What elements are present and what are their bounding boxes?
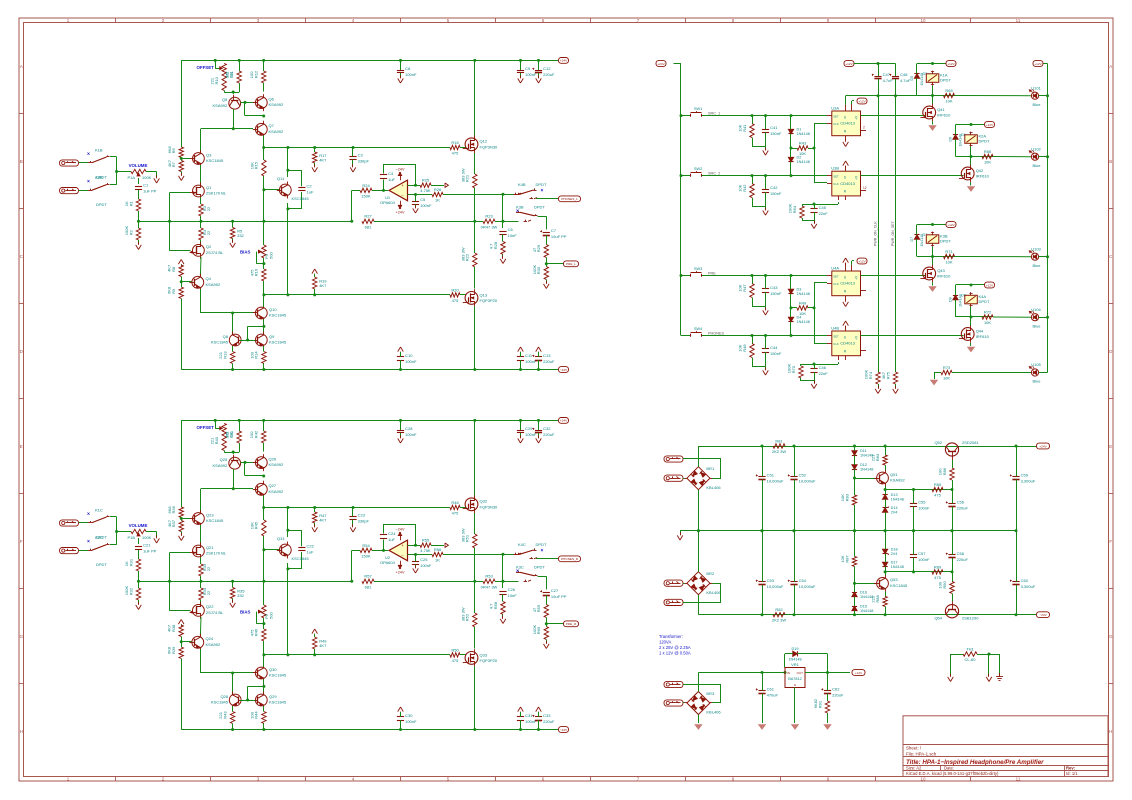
svg-text:1N4148: 1N4148 — [860, 609, 873, 613]
wire p2 wiper feed (ch 1) — [215, 60, 219, 68]
resistor R2 (ch 1) — [124, 226, 141, 240]
relay K3B — [926, 232, 951, 247]
svg-text:2SB1290: 2SB1290 — [962, 616, 979, 621]
svg-text:10uF PP: 10uF PP — [551, 594, 567, 599]
svg-text:Q28: Q28 — [220, 694, 228, 699]
wire -24V bottom rail (ch 2) — [181, 729, 558, 731]
junction (ch 2) — [519, 728, 522, 731]
svg-text:KSC1845: KSC1845 — [292, 196, 310, 201]
wire pot to gnd (ch 1) — [146, 172, 157, 178]
svg-text:R65: R65 — [945, 88, 953, 93]
junction — [912, 570, 915, 573]
wire q drain — [932, 257, 934, 266]
resistor R74 — [864, 370, 881, 388]
resistor R7 (ch 1) — [167, 158, 184, 176]
svg-text:10nF: 10nF — [508, 233, 518, 238]
capacitor C46 — [810, 364, 828, 381]
ground tri — [929, 126, 935, 130]
switch K3C (ch 2) — [516, 565, 546, 576]
ground tri — [968, 187, 974, 191]
svg-text:475: 475 — [934, 493, 941, 498]
svg-text:Q31: Q31 — [277, 536, 285, 541]
svg-text:K4C: K4C — [518, 542, 526, 547]
hier label PHONES_R (ch 2) — [559, 556, 581, 562]
svg-text:R42: R42 — [254, 430, 259, 438]
wire bridge dc- — [698, 490, 700, 531]
svg-text:+12V: +12V — [1034, 62, 1042, 66]
svg-text:R85: R85 — [934, 482, 942, 487]
svg-text:Q52: Q52 — [934, 440, 942, 445]
svg-text:C32: C32 — [543, 426, 551, 431]
svg-text:383 3W: 383 3W — [460, 168, 465, 182]
junction — [853, 445, 856, 448]
junction — [790, 274, 793, 277]
svg-text:Q8: Q8 — [223, 334, 229, 339]
svg-text:Q5: Q5 — [222, 97, 228, 102]
junction (ch 1) — [246, 339, 249, 342]
svg-text:10nF: 10nF — [508, 593, 518, 598]
svg-text:C23: C23 — [358, 512, 366, 517]
wire q10-q9 (ch 1) — [263, 319, 265, 334]
transistor Q13 (ch 1) — [463, 289, 498, 307]
diode D19 — [785, 647, 828, 661]
svg-text:E: E — [20, 444, 23, 449]
transistor Q5 (ch 1) — [213, 95, 241, 109]
power port +12V — [946, 61, 956, 67]
junction (ch 2) — [180, 640, 183, 643]
ic U4B — [827, 325, 865, 355]
svg-text:Q7: Q7 — [269, 123, 275, 128]
svg-text:220uF: 220uF — [957, 505, 969, 510]
wire q10-q9 (ch 2) — [263, 679, 265, 694]
junction (ch 1) — [382, 189, 385, 192]
power +24V flag (ch 2) — [396, 561, 405, 575]
svg-text:332: 332 — [237, 593, 244, 598]
svg-text:SW3: SW3 — [694, 267, 702, 271]
svg-text:R54: R54 — [362, 543, 370, 548]
label OFFSET (ch 1) — [197, 65, 215, 70]
svg-text:0R47 3W: 0R47 3W — [481, 584, 498, 589]
svg-text:+12V: +12V — [986, 123, 994, 127]
potentiometer P2 (ch 1) — [222, 63, 234, 77]
potentiometer P1A (ch 1) — [127, 169, 151, 180]
transistor Q29 (ch 2) — [253, 692, 287, 709]
wire q12 source (ch 2) — [474, 513, 476, 534]
wire vr1 gnd — [794, 688, 796, 724]
power port +24V — [1037, 443, 1050, 449]
power port +12V — [857, 258, 867, 264]
wire q4-q10 base (ch 2) — [200, 649, 255, 673]
wire q13 drain (ch 1) — [474, 307, 476, 370]
junction (ch 2) — [473, 728, 476, 731]
svg-text:CLK: CLK — [833, 282, 839, 286]
junction (ch 1) — [502, 193, 505, 196]
svg-text:VOLUME: VOLUME — [129, 523, 148, 528]
svg-text:File: HPA-1.sch: File: HPA-1.sch — [906, 751, 937, 756]
svg-text:4K7: 4K7 — [881, 371, 886, 379]
transistor Q32 (ch 2) — [463, 496, 498, 514]
wire rc join — [752, 207, 766, 210]
svg-text:C51: C51 — [767, 472, 775, 477]
wire opamp inv (ch 1) — [408, 194, 433, 196]
svg-text:100K: 100K — [864, 370, 869, 380]
label OFFSET (ch 2) — [197, 425, 215, 430]
junction (ch 2) — [519, 419, 522, 422]
wire q7-gate node (ch 1) — [263, 136, 265, 148]
wire rail top elbow — [1043, 63, 1048, 65]
power port -24V (ch 2) — [559, 727, 569, 733]
svg-text:Q32: Q32 — [480, 499, 488, 504]
wire opamp out (ch 2) — [408, 545, 421, 547]
ground — [763, 148, 769, 156]
junction (ch 2) — [473, 580, 476, 583]
junction input node (ch 1) — [115, 170, 118, 173]
svg-text:Blue: Blue — [1032, 323, 1041, 328]
svg-text:BIAS: BIAS — [240, 249, 251, 254]
resistor R66 — [982, 149, 993, 165]
svg-text:D4: D4 — [797, 316, 802, 320]
label VOLUME (ch 1) — [129, 163, 148, 168]
wiper arrow (ch 2) — [259, 610, 262, 613]
svg-text:D15: D15 — [860, 604, 867, 608]
wire gate riser up (ch 1) — [170, 193, 191, 222]
wiper arrow (ch 1) — [259, 250, 262, 253]
wire led to rail — [1039, 95, 1048, 97]
svg-text:R43: R43 — [799, 140, 807, 145]
svg-text:FQP3N30: FQP3N30 — [480, 144, 499, 149]
wire to led — [993, 316, 1031, 318]
wire bridge dc+ — [698, 446, 700, 467]
svg-text:C58: C58 — [957, 551, 965, 556]
junction — [761, 671, 764, 674]
svg-text:R66: R66 — [984, 149, 992, 154]
transistor Q7 (ch 1) — [253, 121, 284, 138]
svg-text:IRF610: IRF610 — [976, 174, 990, 179]
junction (ch 1) — [502, 220, 505, 223]
junction (ch 1) — [399, 368, 402, 371]
transistor Q42 — [959, 165, 990, 183]
wire ac2 — [683, 583, 684, 585]
wire r20-q13 (ch 2) — [460, 654, 466, 656]
svg-text:220uF: 220uF — [543, 72, 555, 77]
svg-text:Blue: Blue — [1032, 263, 1041, 268]
svg-text:U4A: U4A — [831, 265, 839, 270]
wire out stub right (ch 2) — [503, 581, 519, 583]
svg-text:2SK170 BL: 2SK170 BL — [206, 551, 227, 556]
svg-text:221: 221 — [210, 77, 215, 84]
transistor Q22 (ch 2) — [190, 602, 224, 619]
resistor R4 (ch 1) — [199, 228, 211, 240]
svg-text:12: 12 — [863, 186, 867, 190]
junction — [790, 147, 793, 150]
svg-text:10K: 10K — [738, 184, 743, 191]
junction — [790, 306, 793, 309]
transistor Q51 — [874, 470, 905, 487]
resistor R84 — [871, 446, 888, 470]
wire bridge dc- — [698, 531, 700, 572]
thermistor TH1 — [951, 646, 1000, 662]
junction — [931, 255, 934, 258]
junction — [790, 114, 793, 117]
transformer note — [659, 634, 691, 656]
svg-text:−24V: −24V — [396, 528, 405, 532]
wire r12 to rail (ch 1) — [263, 60, 265, 71]
ground flag up (ch 2) — [398, 707, 404, 715]
resistor R53 (ch 2) — [475, 574, 504, 590]
wire feedback line (ch 1) — [139, 221, 475, 223]
junction (ch 2) — [262, 475, 265, 478]
wire wiper hook (ch 2) — [256, 612, 264, 624]
junction — [970, 284, 973, 287]
svg-text:D11: D11 — [860, 449, 867, 453]
wire led to rail — [1039, 317, 1048, 319]
ic U3A — [827, 105, 865, 135]
junction — [931, 94, 934, 97]
junction (ch 1) — [399, 59, 402, 62]
svg-text:10K: 10K — [984, 320, 991, 325]
junction (ch 1) — [350, 220, 353, 223]
svg-text:BR1: BR1 — [706, 466, 715, 471]
diode D8 — [948, 285, 966, 317]
svg-text:R10: R10 — [214, 76, 219, 84]
svg-text:B: B — [1109, 159, 1112, 164]
svg-text:100: 100 — [249, 431, 254, 438]
wire q source — [932, 282, 934, 285]
junction (ch 2) — [262, 419, 265, 422]
wire q8-q9 link (ch 1) — [240, 340, 255, 342]
svg-text:R42: R42 — [742, 184, 747, 192]
svg-text:−: − — [401, 192, 404, 197]
svg-text:220uF: 220uF — [543, 432, 555, 437]
svg-text:KSC1845: KSC1845 — [292, 556, 310, 561]
junction — [853, 477, 856, 480]
wire q drain — [970, 317, 972, 326]
svg-text:IRF610: IRF610 — [937, 113, 951, 118]
svg-text:−24V: −24V — [396, 168, 405, 172]
wire to pre pill (ch 2) — [546, 623, 563, 625]
svg-text:10: 10 — [920, 18, 926, 23]
junction (ch 1) — [313, 293, 316, 296]
junction (ch 2) — [313, 653, 316, 656]
wire r1-r2 (ch 2) — [138, 571, 140, 588]
junction — [751, 274, 754, 277]
svg-text:4K7: 4K7 — [319, 283, 327, 288]
wire q11 base (ch 2) — [264, 549, 279, 551]
svg-text:DPDT: DPDT — [536, 182, 547, 187]
junction — [1015, 613, 1018, 616]
junction — [884, 488, 887, 491]
wire q emitter — [885, 572, 887, 575]
wire r16 down (ch 2) — [263, 641, 265, 655]
junction (ch 1) — [232, 127, 235, 130]
junction — [877, 62, 880, 65]
junction — [853, 529, 856, 532]
junction — [912, 529, 915, 532]
resistor R60 (ch 2) — [532, 624, 549, 643]
wire pwr_on_set rail — [895, 96, 897, 372]
svg-text:475: 475 — [452, 658, 459, 663]
resistor R31 (ch 2) — [124, 558, 141, 571]
wire psu rail — [698, 614, 1036, 616]
svg-text:1N4148: 1N4148 — [797, 132, 810, 136]
capacitor C24 (ch 2) — [380, 531, 396, 542]
wire q source — [932, 121, 934, 124]
ground (ch 1) — [413, 205, 419, 213]
power port +12V — [985, 282, 995, 288]
junction (ch 1) — [168, 220, 171, 223]
led U103 — [1029, 246, 1041, 268]
wire left supply drop (ch 2) — [181, 420, 183, 507]
svg-text:OFFSET: OFFSET — [197, 425, 215, 430]
svg-text:100nF: 100nF — [405, 359, 417, 364]
junction (ch 2) — [262, 685, 265, 688]
svg-text:R45: R45 — [254, 521, 259, 529]
svg-text:100nF: 100nF — [405, 719, 417, 724]
bridge BR1 — [684, 464, 721, 492]
svg-text:681: 681 — [365, 224, 372, 229]
bridge BR3 — [684, 689, 721, 717]
wire r12-q6 (ch 1) — [263, 83, 265, 92]
junction (ch 1) — [231, 312, 234, 315]
svg-text:C13: C13 — [543, 353, 551, 358]
svg-text:10K: 10K — [738, 284, 743, 291]
wire q source — [970, 182, 972, 185]
svg-text:C57: C57 — [918, 551, 926, 556]
led U102 — [1029, 146, 1041, 168]
connector 12VAC_1 — [664, 681, 683, 687]
wire u4a q out — [861, 275, 926, 277]
svg-text:U102: U102 — [1031, 146, 1041, 151]
junction (ch 1) — [262, 293, 265, 296]
svg-text:6K8: 6K8 — [167, 506, 172, 514]
wire u4b q out — [861, 335, 964, 337]
junction — [764, 334, 767, 337]
svg-text:U4B: U4B — [831, 325, 839, 330]
ground tri — [824, 725, 830, 729]
svg-text:R58: R58 — [493, 601, 498, 609]
junction (ch 2) — [246, 699, 249, 702]
junction (ch 2) — [286, 529, 289, 532]
wire q5-q6 link (ch 2) — [241, 462, 254, 464]
wire sw out — [706, 175, 828, 177]
svg-text:475: 475 — [452, 511, 459, 516]
hier label PHONES_L (ch 1) — [559, 196, 581, 202]
junction — [988, 653, 991, 656]
wire q12 drain (ch 1) — [474, 60, 476, 138]
ground — [763, 307, 769, 315]
svg-text:100K: 100K — [142, 535, 152, 540]
wire q emitter — [885, 486, 887, 489]
power +24V flag (ch 1) — [396, 201, 405, 215]
svg-text:G: G — [1109, 634, 1113, 639]
resistor R91 — [813, 698, 830, 723]
capacitor C2 (ch 1) — [298, 184, 314, 195]
svg-text:2V4: 2V4 — [891, 510, 898, 514]
svg-text:×: × — [87, 179, 90, 185]
svg-text:C29: C29 — [525, 426, 533, 431]
bridge BR2 — [684, 569, 721, 597]
svg-text:F: F — [1109, 539, 1112, 544]
wire u3a q out — [861, 115, 926, 117]
wire rc join — [802, 221, 815, 224]
svg-text:PRE_L: PRE_L — [566, 262, 576, 266]
resistor R72 — [982, 309, 993, 325]
ground tri — [929, 287, 935, 291]
svg-text:IRF610: IRF610 — [937, 274, 951, 279]
resistor R3 (ch 1) — [199, 204, 211, 216]
svg-text:10K: 10K — [799, 311, 806, 316]
resistor R89 — [932, 564, 943, 580]
svg-text:22: 22 — [206, 230, 211, 235]
junction — [853, 582, 856, 585]
svg-text:221: 221 — [871, 454, 876, 461]
svg-text:Q6: Q6 — [269, 96, 275, 101]
wire relay top — [956, 284, 985, 286]
svg-text:2K2 3W: 2K2 3W — [772, 618, 786, 623]
regulator VR1 — [785, 662, 805, 688]
svg-text:C9: C9 — [525, 66, 531, 71]
svg-text:SW1: SW1 — [694, 107, 702, 111]
svg-text:D12: D12 — [860, 463, 867, 467]
wire spreader mid (ch 2) — [263, 581, 265, 605]
wire r12 to rail (ch 2) — [263, 420, 265, 431]
diode D4 — [788, 308, 809, 336]
wire q10 top (ch 2) — [263, 655, 265, 667]
junction (ch 1) — [352, 146, 355, 149]
junction — [764, 174, 767, 177]
svg-text:R39: R39 — [171, 646, 176, 654]
svg-text:R29: R29 — [536, 244, 541, 252]
svg-text:DPDT: DPDT — [96, 562, 107, 567]
wire r9 to rail (ch 1) — [181, 299, 183, 370]
resistor R49 — [791, 300, 814, 316]
svg-text:DPDT: DPDT — [940, 78, 951, 83]
svg-text:4.75K: 4.75K — [420, 548, 431, 553]
svg-text:U3B: U3B — [831, 166, 839, 171]
wire mirror fold (ch 1) — [245, 102, 264, 115]
svg-text:×: × — [516, 209, 519, 215]
wiper arrow (ch 1) — [220, 67, 222, 70]
svg-text:1K: 1K — [124, 201, 129, 206]
switch K2B (ch 1) — [87, 175, 109, 207]
svg-text:BA7812: BA7812 — [788, 677, 802, 681]
resistor R43 (ch 2) — [218, 706, 235, 730]
transistor Q6 (ch 1) — [253, 94, 284, 111]
svg-text:U103: U103 — [1031, 246, 1041, 251]
wire k3 to c7 (ch 1) — [538, 216, 547, 229]
svg-text:Q1: Q1 — [206, 185, 212, 190]
svg-text:10K: 10K — [945, 99, 952, 104]
wire relay top — [917, 63, 946, 65]
svg-text:2V4: 2V4 — [891, 552, 898, 556]
junction (ch 1) — [180, 280, 183, 283]
svg-text:KSA992: KSA992 — [269, 129, 284, 134]
svg-text:D13: D13 — [891, 493, 898, 497]
junction (ch 2) — [286, 506, 289, 509]
transistor Q12 (ch 1) — [463, 136, 498, 154]
wire u4b reset pins — [801, 356, 846, 365]
svg-text:R1: R1 — [128, 200, 133, 206]
junction (ch 2) — [231, 580, 234, 583]
svg-text:+12V: +12V — [858, 259, 866, 263]
wire to volume pot (ch 1) — [117, 171, 131, 173]
ground tri — [792, 725, 798, 729]
svg-text:D19: D19 — [792, 647, 799, 651]
junction (ch 2) — [180, 517, 183, 520]
transistor Q28 (ch 2) — [211, 692, 244, 709]
svg-text:C61: C61 — [767, 686, 775, 691]
svg-text:100: 100 — [249, 71, 254, 78]
